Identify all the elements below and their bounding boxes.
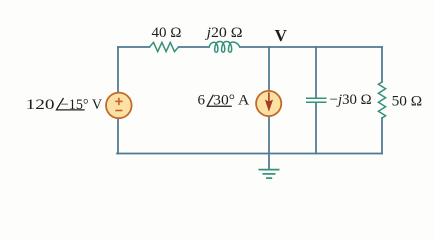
svg-text:j20 Ω: j20 Ω (204, 25, 242, 41)
svg-text:−15° V: −15° V (61, 97, 102, 113)
svg-text:−j30 Ω: −j30 Ω (330, 92, 372, 108)
svg-text:V: V (275, 26, 287, 45)
svg-text:50 Ω: 50 Ω (392, 93, 423, 109)
svg-text:40 Ω: 40 Ω (152, 25, 182, 41)
svg-text:120: 120 (26, 97, 55, 113)
svg-text:6: 6 (198, 93, 206, 109)
